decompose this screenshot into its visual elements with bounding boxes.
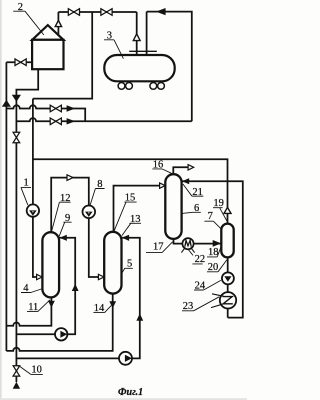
wire tank inlet valve line bbox=[6, 61, 32, 63]
wire gas line A with hops over x=16.4 and x=32.9 bbox=[6, 105, 85, 121]
label 17 bbox=[146, 241, 173, 252]
label 14 bbox=[93, 303, 111, 314]
svg-text:10: 10 bbox=[31, 365, 42, 376]
heat exchanger 23 bbox=[211, 292, 236, 308]
wire top valve header y=12 bbox=[58, 11, 136, 13]
column 6 bbox=[165, 174, 181, 239]
wire cross arm into column 6 and right loop riser bbox=[182, 181, 243, 317]
drum 3 wheel 2 bbox=[126, 83, 133, 90]
wire column 4 reflux riser and pump 11 run bbox=[16, 238, 75, 334]
label 7 bbox=[204, 211, 221, 229]
pump 14 bbox=[119, 352, 132, 365]
wire left main riser (recycle to tank line) bbox=[5, 62, 7, 351]
open arrow on column 4 overhead line bbox=[67, 175, 73, 181]
flow arrow right on line A bbox=[67, 105, 76, 111]
valve on feed drop line x=16.4 bbox=[13, 132, 20, 142]
label 23 bbox=[182, 297, 219, 312]
label 6 bbox=[182, 203, 201, 214]
wire column 4 overhead to pump 8 to column 5 feed bbox=[51, 178, 104, 277]
svg-text:5: 5 bbox=[127, 258, 132, 269]
label 18 bbox=[207, 247, 221, 258]
wire drum nozzle left bbox=[136, 12, 138, 55]
pump 1 bbox=[27, 204, 39, 216]
tank 2 body bbox=[32, 40, 63, 69]
tank 2 roof bbox=[32, 25, 63, 40]
valve on top header (left) bbox=[68, 9, 79, 16]
wire tank roof vent pipe bbox=[57, 12, 59, 35]
reflux arrow 21 into column 6 top bbox=[182, 178, 189, 184]
wire column 4 feed drop line (from top manifold via pump 1) bbox=[33, 99, 42, 277]
valve on gas line B bbox=[50, 118, 61, 125]
column 7 bbox=[221, 224, 233, 258]
open product arrow 16 bbox=[188, 165, 194, 170]
column 4 bbox=[42, 232, 59, 297]
label 20 bbox=[207, 260, 227, 273]
label 8 bbox=[90, 179, 105, 206]
scan edge bottom bbox=[0, 398, 247, 400]
svg-text:Фиг.1: Фиг.1 bbox=[118, 387, 143, 398]
wire column 4 bottoms to left riser (hop over x=16.4) bbox=[6, 297, 51, 325]
drum 3 wheel 3 bbox=[150, 83, 157, 90]
valve on top header (right) bbox=[101, 9, 112, 16]
drain triangle at line 10 end bbox=[13, 382, 20, 389]
heat exchanger 22 bbox=[181, 238, 194, 253]
drum 3 body bbox=[104, 55, 174, 81]
label 12 bbox=[51, 193, 70, 232]
label 11 bbox=[27, 300, 50, 313]
label 5 bbox=[122, 258, 133, 273]
wire column 5 reflux riser and pump 14 run bbox=[16, 238, 139, 359]
open feed arrow into column 5 bbox=[98, 274, 104, 279]
drum 3 wheel 4 bbox=[158, 83, 165, 90]
feed arrow 18 into column 7 bbox=[213, 240, 222, 247]
label 4 bbox=[21, 283, 43, 294]
svg-text:22: 22 bbox=[195, 254, 206, 265]
vent triangle on tank 2 roof bbox=[55, 20, 61, 26]
label 16 bbox=[152, 160, 172, 174]
open triangle 19 on column 7 inlet bbox=[224, 207, 231, 213]
column 5 bbox=[104, 232, 121, 294]
valve 10 bbox=[13, 366, 20, 376]
flow arrow down on column 4 bottoms bbox=[48, 301, 55, 308]
wire tank bottom outlet elbow + main feed drop line bbox=[16, 69, 38, 382]
svg-text:7: 7 bbox=[208, 211, 213, 222]
svg-text:17: 17 bbox=[153, 241, 164, 252]
label 10 bbox=[18, 365, 43, 376]
wire top manifold drop at x=92 and cross header y=98.6 bbox=[33, 12, 92, 99]
wire gas line B with hop over x=32.9 bbox=[16, 118, 191, 121]
flow arrow down on column 5 bottoms bbox=[109, 301, 116, 308]
valve on gas line A bbox=[50, 105, 61, 112]
reflux arrow into column 5 top bbox=[122, 235, 129, 241]
wire drum nozzle right bbox=[146, 12, 148, 55]
valve on tank inlet line bbox=[15, 59, 26, 66]
flow arrow left on drum return line bbox=[156, 8, 166, 15]
label 19 bbox=[213, 198, 227, 221]
label 15 bbox=[114, 193, 137, 232]
wire column 6 overhead product line 16 bbox=[173, 167, 188, 174]
wire drum nozzle flange bar bbox=[129, 50, 157, 52]
label 21 bbox=[183, 184, 204, 198]
pump 20 bbox=[222, 272, 234, 284]
label 3 bbox=[104, 30, 123, 58]
wire column 6 bottoms through exchanger 22 to column 7 bbox=[174, 239, 222, 244]
label 2 bbox=[13, 2, 44, 35]
flow arrow right on line B bbox=[67, 118, 76, 124]
pump 11 bbox=[55, 328, 67, 340]
flow arrow down on feed drop line bbox=[12, 95, 21, 102]
wire long header y=159 to column 7 drop bbox=[33, 159, 228, 223]
wire drum return line with corner riser bbox=[147, 12, 192, 122]
drum 3 wheel 1 bbox=[118, 83, 125, 90]
flow arrow up on pump 11 riser bbox=[72, 284, 79, 291]
scan edge left bbox=[0, 0, 2, 400]
flow arrow up on left recycle riser bbox=[2, 100, 11, 107]
label 13 bbox=[122, 214, 141, 236]
reflux arrow into column 4 top bbox=[60, 235, 67, 241]
label 9 bbox=[59, 213, 71, 236]
wire column 7 bottom chain to exchangers bbox=[227, 257, 229, 317]
wire column 5 bottoms to left riser (hop over x=16.4) bbox=[6, 294, 112, 351]
open feed arrow into column 4 bbox=[37, 274, 43, 279]
wire column 5 overhead into column 6 bbox=[114, 186, 161, 232]
svg-text:1: 1 bbox=[24, 178, 29, 189]
vent triangle on drum 3 nozzle bbox=[133, 34, 140, 41]
label 22 bbox=[188, 250, 205, 265]
open feed arrow into column 6 bbox=[160, 183, 166, 188]
pump 8 bbox=[83, 206, 96, 219]
flow arrow up on pump 14 riser bbox=[136, 314, 143, 321]
label 24 bbox=[194, 280, 221, 291]
label 1 bbox=[21, 178, 31, 205]
